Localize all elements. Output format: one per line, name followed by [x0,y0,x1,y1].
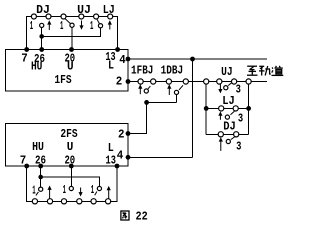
svg-text:26: 26 [35,154,46,168]
svg-text:1FS: 1FS [54,73,71,87]
svg-text:22: 22 [136,210,148,224]
svg-text:7: 7 [21,51,28,65]
svg-text:L: L [108,58,114,72]
svg-text:1: 1 [90,19,93,33]
svg-text:1: 1 [60,19,63,33]
svg-text:7: 7 [20,154,27,168]
svg-text:U: U [67,140,74,154]
svg-text:UJ: UJ [221,65,233,79]
svg-text:1: 1 [32,183,35,197]
svg-text:DJ: DJ [36,3,50,17]
svg-text:20: 20 [64,154,75,168]
svg-text:3: 3 [238,112,243,126]
svg-text:4: 4 [117,149,124,163]
svg-text:1DBJ: 1DBJ [161,63,184,77]
svg-text:1: 1 [30,19,33,33]
svg-text:UJ: UJ [77,3,91,17]
svg-text:HU: HU [31,60,43,74]
svg-text:HU: HU [32,140,44,154]
svg-text:2: 2 [118,127,125,141]
svg-text:DJ: DJ [223,119,236,133]
svg-text:1: 1 [91,183,94,197]
svg-text:LJ: LJ [103,3,115,17]
svg-text:3: 3 [236,82,241,96]
svg-text:U: U [67,60,74,74]
svg-text:4: 4 [119,53,126,67]
svg-text:13: 13 [106,154,116,168]
svg-text:1: 1 [63,183,66,197]
svg-text:1FBJ: 1FBJ [131,63,153,77]
svg-text:LJ: LJ [222,94,235,108]
svg-text:3: 3 [236,139,241,153]
svg-text:2: 2 [116,75,123,89]
